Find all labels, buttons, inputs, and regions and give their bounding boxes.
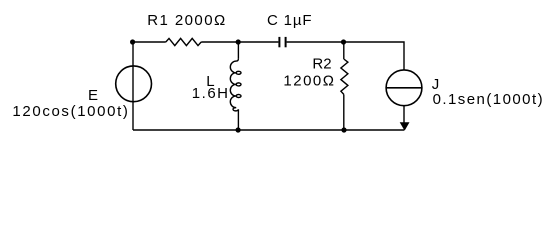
junction node B top of R2	[341, 39, 346, 44]
resistor R1	[166, 38, 201, 45]
wire capacitor C to top-right corner down to J	[287, 42, 404, 70]
svg-text:0.1sen(1000t): 0.1sen(1000t)	[433, 91, 543, 108]
svg-text:120cos(1000t): 120cos(1000t)	[12, 103, 128, 120]
svg-text:R2: R2	[312, 56, 331, 73]
wire R1 to capacitor C	[201, 41, 278, 43]
svg-text:1.6H: 1.6H	[192, 85, 228, 102]
current source J bar	[386, 87, 422, 89]
wire left branch through E	[132, 42, 134, 130]
wire J to arrowhead	[403, 106, 405, 123]
voltage source E circle	[116, 66, 152, 102]
junction node A top of L	[236, 39, 241, 44]
svg-text:R1 2000Ω: R1 2000Ω	[147, 12, 225, 29]
wire node A to inductor L	[237, 42, 239, 59]
capacitor C left plate	[278, 37, 280, 47]
inductor L coil	[230, 59, 241, 111]
current source J circle	[386, 70, 422, 106]
svg-text:C 1µF: C 1µF	[267, 12, 312, 29]
capacitor C right plate	[285, 37, 287, 47]
wire inductor L to bottom node	[237, 109, 239, 130]
wire bottom	[133, 129, 404, 131]
svg-text:E: E	[88, 87, 98, 104]
wire top-left node to R1	[133, 41, 166, 43]
junction top-left at E	[130, 39, 135, 44]
resistor R2	[341, 59, 348, 94]
current direction arrowhead	[400, 122, 410, 130]
svg-text:1200Ω: 1200Ω	[283, 72, 334, 89]
junction bottom of L	[236, 127, 241, 132]
junction bottom of R2	[341, 127, 346, 132]
wire resistor R2 to bottom node	[343, 94, 345, 130]
wire node B to resistor R2	[343, 42, 345, 59]
